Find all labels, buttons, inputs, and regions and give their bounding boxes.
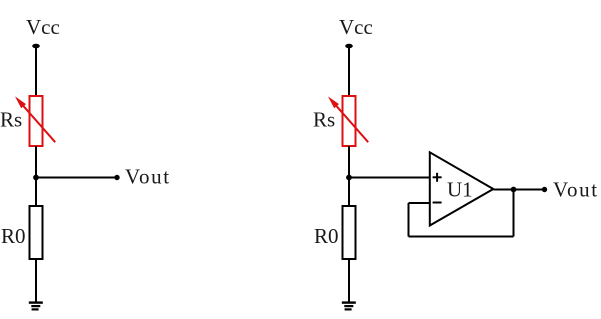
feedback wire right vertical — [513, 190, 515, 237]
svg-text:Vout: Vout — [553, 178, 599, 202]
wire op-amp output to Vout terminal — [494, 189, 545, 191]
wire R0 to ground (right) — [348, 259, 350, 302]
svg-text:Rs: Rs — [313, 108, 335, 132]
node junction dot (right) — [346, 175, 352, 181]
resistor Rs (left) — [30, 96, 43, 146]
arrow across Rs (left) — [15, 96, 55, 142]
svg-text:R0: R0 — [314, 224, 339, 248]
terminal dot Vout (left) — [114, 175, 119, 180]
wire Vcc to Rs (right) — [348, 46, 350, 97]
wire R0 to ground (left) — [35, 259, 37, 302]
resistor R0 (right) — [343, 206, 356, 259]
node junction dot output — [511, 187, 517, 193]
node junction dot (left) — [33, 175, 39, 181]
svg-text:Vcc: Vcc — [339, 15, 373, 39]
op-amp - input symbol — [433, 202, 442, 204]
svg-text:R0: R0 — [1, 224, 26, 248]
wire node to Vout terminal (left) — [36, 177, 116, 179]
resistor R0 (left) — [30, 206, 43, 259]
wire Rs to R0 (right) — [348, 146, 350, 206]
resistor Rs (right) — [343, 96, 356, 146]
svg-text:Vcc: Vcc — [26, 15, 60, 39]
ground (left) — [29, 303, 43, 310]
wire Vcc to Rs (left) — [35, 46, 37, 97]
ground (right) — [342, 303, 356, 310]
terminal dot Vout (right) — [542, 187, 547, 192]
feedback wire bottom — [409, 236, 514, 238]
svg-text:Vout: Vout — [125, 165, 171, 189]
op-amp U1 — [430, 152, 494, 225]
svg-text:U1: U1 — [447, 178, 473, 202]
wire Rs to R0 (left) — [35, 146, 37, 206]
pin dot Vcc (left) — [32, 44, 40, 49]
pin dot Vcc (right) — [345, 44, 353, 49]
op-amp + input symbol — [433, 173, 442, 182]
wire - input to feedback — [409, 202, 430, 204]
wire node to op-amp + input — [349, 177, 429, 179]
svg-text:Rs: Rs — [0, 108, 22, 132]
feedback wire left vertical — [408, 203, 410, 237]
arrow across Rs (right) — [328, 96, 368, 142]
